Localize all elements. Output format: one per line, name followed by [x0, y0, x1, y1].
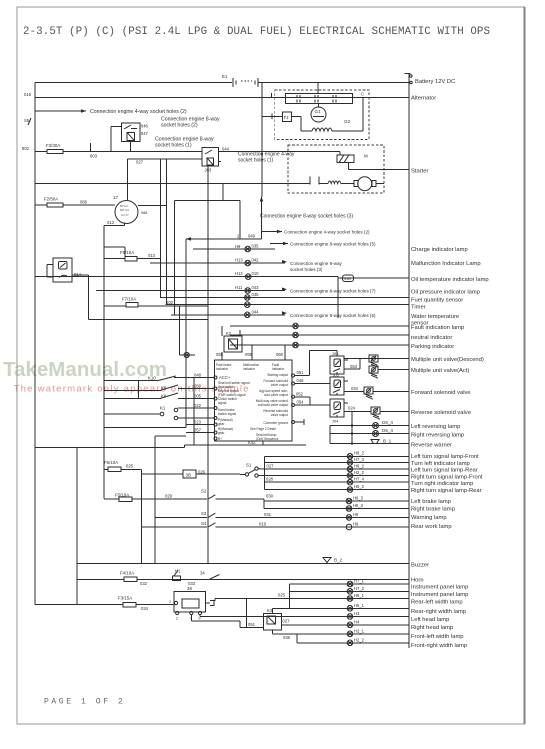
multiple unit valve descend [369, 355, 409, 367]
row H13 042 [150, 258, 287, 266]
svg-text:H2_1: H2_1 [354, 628, 365, 633]
svg-text:Turn left indicator lamp: Turn left indicator lamp [411, 461, 470, 467]
front-left width lamp H2_1 [289, 628, 409, 636]
svg-text:17: 17 [113, 195, 119, 200]
pin 1 [271, 93, 273, 98]
alternator wire [35, 97, 409, 99]
wire key bottom to bus [104, 220, 125, 225]
lamp H7_3 turn left indicator [264, 457, 408, 465]
lamp H8 warning [346, 512, 359, 520]
left bus 2 segment A [103, 225, 105, 498]
svg-text:Turn right indicator lamp: Turn right indicator lamp [411, 481, 473, 487]
reverse warner B_1 [330, 439, 409, 444]
svg-text:803: 803 [90, 154, 98, 159]
svg-text:Right brake lamp: Right brake lamp [411, 507, 455, 513]
svg-text:Front-left width lamp: Front-left width lamp [411, 634, 464, 640]
svg-text:J06: J06 [332, 351, 339, 356]
note 8-way (5) [270, 242, 376, 247]
svg-text:H7_4: H7_4 [354, 477, 365, 482]
fuse F8/10A [104, 250, 161, 261]
svg-text:H8_2: H8_2 [354, 451, 365, 456]
svg-text:9: 9 [199, 617, 201, 621]
svg-text:Connection engine 4-way socket: Connection engine 4-way socket holes (2) [90, 109, 187, 115]
svg-text:Rear-left width lamp: Rear-left width lamp [411, 600, 463, 606]
lamp H5_3 right brake [264, 503, 409, 511]
svg-text:Multiple unit valve(Act): Multiple unit valve(Act) [411, 368, 469, 374]
controller right pin texts [256, 373, 289, 425]
row H11 043 [96, 285, 287, 293]
controller bottom texts [250, 427, 279, 441]
svg-text:D6_4: D6_4 [382, 420, 393, 425]
svg-text:Rear-right width lamp: Rear-right width lamp [411, 609, 466, 615]
svg-text:BAT IG2: BAT IG2 [120, 209, 130, 212]
switch K9 [160, 385, 178, 391]
riser to socket note [175, 184, 264, 239]
svg-text:1: 1 [169, 600, 171, 604]
fuse F3/15A [35, 596, 174, 612]
svg-text:Left turn signal lamp-Rear: Left turn signal lamp-Rear [411, 468, 478, 474]
svg-text:052: 052 [296, 391, 304, 396]
wire F7 branch connector [180, 306, 195, 358]
svg-text:Right reversing lamp: Right reversing lamp [411, 433, 464, 439]
left feed verticals to switches [104, 381, 186, 428]
svg-text:Warning lamp: Warning lamp [411, 515, 447, 521]
svg-text:029: 029 [165, 494, 173, 499]
svg-text:B+: B+ [218, 437, 222, 441]
switch S2 brake [132, 489, 274, 509]
lamp H9 rear work [346, 522, 359, 530]
starter assembly dashed box [288, 145, 384, 193]
acc wire row [22, 146, 202, 159]
left head lamp H3 [239, 611, 409, 619]
svg-text:Controller ground: Controller ground [263, 421, 288, 425]
pin labels right [296, 370, 304, 405]
switch K10 [148, 376, 176, 381]
wire 024 reverse [344, 406, 371, 412]
svg-text:B_2: B_2 [334, 558, 343, 563]
row timer [166, 302, 409, 308]
rear-left width lamp H6_1 [290, 593, 409, 601]
svg-text:S1: S1 [246, 463, 252, 468]
svg-text:032: 032 [140, 581, 148, 586]
rear-right width lamp H5_1 [273, 603, 409, 611]
svg-text:H8: H8 [353, 512, 359, 517]
controller U1 box [215, 360, 293, 441]
svg-text:TakeManual.com: TakeManual.com [3, 358, 167, 381]
svg-text:neutral indicator: neutral indicator [411, 335, 452, 341]
svg-text:Instrument panel lamp: Instrument panel lamp [411, 585, 468, 591]
svg-text:S4: S4 [201, 521, 207, 526]
svg-text:046: 046 [141, 124, 149, 129]
svg-text:Right head lamp: Right head lamp [411, 625, 453, 631]
svg-text:H11: H11 [235, 285, 243, 290]
starter solenoid [218, 152, 368, 170]
controller header texts [216, 363, 285, 371]
reverse solenoid valve [371, 407, 409, 419]
svg-text:Fuel quantity sensor: Fuel quantity sensor [411, 298, 463, 304]
svg-text:Left turn signal lamp-Front: Left turn signal lamp-Front [411, 454, 479, 460]
front-right width lamp H2_2 [297, 637, 409, 645]
relay J03 [202, 147, 229, 173]
svg-text:F3/15A: F3/15A [118, 596, 132, 601]
switch K1 [160, 406, 178, 420]
svg-text:See Page 2 Detail: See Page 2 Detail [250, 427, 276, 431]
svg-text:H6_2: H6_2 [354, 463, 365, 468]
wire 059 060 [216, 345, 285, 360]
svg-text:2-3.5T (P) (C) (PSI 2.4L LPG &: 2-3.5T (P) (C) (PSI 2.4L LPG & DUAL FUEL… [23, 26, 490, 38]
svg-text:ACC+: ACC+ [219, 375, 231, 380]
controller ground terminator [295, 419, 304, 425]
alternator rectifier [286, 94, 353, 104]
svg-text:Left brake lamp: Left brake lamp [411, 499, 451, 505]
svg-text:Charge indicator lamp: Charge indicator lamp [411, 247, 468, 253]
box 3B [141, 436, 240, 564]
bottom feed verticals [191, 584, 347, 643]
svg-text:Front-right width lamp: Front-right width lamp [411, 643, 467, 649]
svg-text:Connection engine 4-way socket: Connection engine 4-way socket holes (2) [284, 230, 370, 235]
svg-text:Water temperature: Water temperature [411, 314, 459, 320]
svg-text:053: 053 [350, 364, 358, 369]
lamp H8_2 left turn front [264, 451, 408, 459]
right reversing lamp D5_4 [330, 428, 409, 437]
svg-text:S2: S2 [201, 489, 207, 494]
svg-text:gear: gear [218, 431, 225, 435]
803 junction tick [90, 143, 92, 152]
svg-text:G1: G1 [315, 109, 322, 114]
row 044 water [171, 309, 287, 317]
relay K2 [224, 331, 242, 352]
lamp H2_2 right turn front [264, 470, 408, 478]
svg-text:J04: J04 [332, 419, 339, 424]
lamp H7_4 turn right indicator [264, 477, 408, 485]
svg-text:Oil pressure indicator lamp: Oil pressure indicator lamp [411, 290, 480, 296]
fuse F5/10A [104, 493, 173, 502]
svg-text:060: 060 [276, 352, 284, 357]
horn row [77, 579, 409, 581]
reverse feed vertical [330, 412, 353, 445]
fuse F4/10A [120, 571, 148, 586]
svg-text:K1: K1 [160, 406, 166, 411]
svg-text:Reverse warner: Reverse warner [411, 443, 452, 449]
svg-text:802: 802 [22, 146, 30, 151]
battery top wire [35, 82, 409, 84]
svg-text:K10: K10 [148, 376, 156, 381]
svg-text:H9: H9 [235, 244, 241, 249]
svg-text:3B: 3B [186, 473, 191, 478]
switch K8 [160, 393, 178, 399]
note 4-way (2) mid [262, 230, 370, 235]
svg-text:030: 030 [266, 494, 274, 499]
svg-text:Oil temperature indicator lamp: Oil temperature indicator lamp [411, 277, 489, 283]
svg-text:031: 031 [264, 512, 272, 517]
svg-text:027: 027 [283, 619, 291, 624]
svg-text:Acc ST: Acc ST [121, 214, 129, 217]
svg-text:035: 035 [252, 244, 260, 249]
right head lamp H4 [281, 619, 409, 627]
svg-text:F2/50A: F2/50A [44, 197, 58, 202]
main feed wire row [35, 183, 310, 185]
fuse F3/30A [46, 143, 63, 154]
fuse F7/10A [104, 297, 208, 308]
svg-text:BR IG1: BR IG1 [120, 205, 129, 208]
svg-text:051: 051 [297, 370, 305, 375]
controller left pin texts [218, 375, 250, 441]
wires K2 to fault rows [222, 326, 240, 336]
svg-text:F1: F1 [284, 115, 290, 120]
instrument lamp H7_1 [290, 579, 409, 587]
svg-text:Starter: Starter [411, 169, 428, 175]
svg-text:013: 013 [107, 220, 115, 225]
svg-text:noid valve output: noid valve output [264, 393, 288, 397]
lamp H6_3 left brake [264, 496, 409, 504]
svg-text:Connection engine 8-way socket: Connection engine 8-way socket holes (5) [290, 242, 376, 247]
watermark TakeManual.com [3, 358, 248, 395]
wires controller to J relays [295, 351, 337, 406]
wire 053 [344, 359, 409, 370]
wire solenoid to bus (starter) [349, 169, 409, 171]
svg-text:H5_3: H5_3 [353, 503, 364, 508]
svg-text:Instrument panel lamp: Instrument panel lamp [411, 592, 468, 598]
starter motor [341, 177, 384, 191]
battery E1 [222, 74, 258, 87]
fuse F1 [283, 112, 292, 121]
svg-text:045: 045 [252, 292, 260, 297]
svg-text:gear: gear [218, 422, 225, 426]
svg-text:38: 38 [187, 586, 192, 591]
relay J05 [330, 374, 348, 396]
svg-text:H3: H3 [354, 611, 360, 616]
svg-text:Horn: Horn [411, 578, 424, 584]
fuse F2/50A [44, 197, 63, 208]
svg-text:048: 048 [194, 373, 202, 378]
svg-text:Parking indicator: Parking indicator [411, 344, 454, 350]
svg-text:34: 34 [200, 571, 205, 576]
controller right pins [292, 374, 295, 424]
svg-text:K42: K42 [248, 440, 256, 445]
svg-text:2: 2 [176, 617, 178, 621]
svg-text:H6_3: H6_3 [353, 496, 364, 501]
svg-text:M: M [364, 154, 368, 159]
svg-text:K2: K2 [226, 331, 232, 336]
svg-text:socket holes (1): socket holes (1) [238, 158, 274, 164]
svg-text:028: 028 [266, 477, 274, 482]
svg-text:044: 044 [222, 147, 230, 152]
svg-text:S1B: S1B [344, 277, 351, 281]
svg-text:H7_2: H7_2 [354, 586, 365, 591]
svg-text:034: 034 [351, 386, 359, 391]
svg-text:valve output: valve output [271, 383, 288, 387]
row H9 035 [193, 244, 275, 252]
svg-text:050: 050 [194, 384, 202, 389]
field coil [312, 128, 332, 131]
svg-text:027: 027 [136, 160, 144, 165]
turn lamp collector [263, 456, 265, 489]
svg-text:indicator: indicator [272, 367, 285, 371]
svg-text:Battery 12V DC: Battery 12V DC [415, 79, 455, 85]
svg-text:indicator: indicator [216, 367, 229, 371]
left bus 2 segment B [88, 275, 208, 320]
wire 034 forward [344, 386, 364, 392]
switch S3 warning [155, 511, 409, 517]
svg-text:H6_1: H6_1 [354, 593, 365, 598]
svg-text:023: 023 [194, 420, 202, 425]
svg-text:indicator: indicator [243, 367, 256, 371]
svg-text:058: 058 [216, 352, 224, 357]
generator G1 [311, 103, 326, 122]
svg-text:042: 042 [252, 258, 260, 263]
svg-text:013: 013 [148, 253, 156, 258]
relay 046/047 [111, 123, 148, 152]
relay J04 [330, 399, 348, 424]
svg-text:PAGE 1 OF 2: PAGE 1 OF 2 [44, 698, 125, 707]
svg-text:Alternator: Alternator [411, 96, 436, 102]
svg-text:H7_1: H7_1 [354, 579, 365, 584]
svg-text:H4: H4 [354, 619, 360, 624]
svg-text:Forward solenoid valve: Forward solenoid valve [411, 390, 471, 396]
svg-text:Starting output: Starting output [267, 373, 288, 377]
svg-text:solenoid valve output: solenoid valve output [258, 403, 288, 407]
svg-text:B_1: B_1 [383, 439, 392, 444]
svg-text:Connection engine 8-way socket: Connection engine 8-way socket holes (3) [260, 214, 353, 220]
svg-text:G2: G2 [344, 119, 351, 124]
buzzer row [77, 563, 409, 565]
lamp H5_2 right turn rear [264, 484, 408, 492]
svg-text:H2_2: H2_2 [354, 470, 365, 475]
svg-text:Right turn signal lamp-Front: Right turn signal lamp-Front [411, 475, 483, 481]
S1B sender [343, 275, 354, 282]
forward solenoid valve [364, 387, 409, 399]
light switch 38 [169, 586, 214, 621]
svg-text:valve output: valve output [271, 413, 288, 417]
svg-text:005: 005 [194, 394, 202, 399]
wire 028 turn right [258, 476, 273, 482]
relay J06 [330, 351, 348, 374]
svg-text:H9: H9 [353, 522, 359, 527]
svg-text:Multiple unit valve(Descend): Multiple unit valve(Descend) [411, 357, 484, 363]
key switch 17 [113, 195, 147, 224]
left reversing lamp D6_4 [330, 420, 409, 429]
svg-text:047: 047 [141, 131, 149, 136]
right bus [405, 74, 413, 649]
svg-text:036: 036 [283, 635, 291, 640]
svg-text:043: 043 [252, 285, 260, 290]
multiple unit valve act [369, 366, 409, 378]
key switch feed [35, 200, 115, 206]
lamp H6_2 left turn rear [264, 463, 408, 471]
instrument lamp H7_2 [290, 586, 409, 594]
svg-text:K3: K3 [267, 608, 273, 613]
svg-text:signal: signal [218, 401, 227, 405]
svg-text:049: 049 [248, 234, 256, 239]
svg-text:027: 027 [267, 463, 275, 468]
svg-text:Buzzer: Buzzer [411, 563, 429, 569]
svg-text:Reverse solenoid valve: Reverse solenoid valve [411, 410, 471, 416]
svg-text:(Opt) Sequence: (Opt) Sequence [256, 437, 279, 441]
svg-text:025: 025 [126, 464, 134, 469]
svg-text:switch signal: switch signal [218, 412, 236, 416]
svg-text:H5_1: H5_1 [354, 603, 365, 608]
svg-text:088: 088 [141, 211, 147, 215]
svg-text:Connection engine 8-way: Connection engine 8-way [290, 261, 343, 266]
row 045 fuel [160, 292, 409, 300]
svg-text:Malfunction Indicator Lamp: Malfunction Indicator Lamp [411, 261, 481, 267]
svg-text:F3/30A: F3/30A [46, 143, 60, 148]
svg-text:Connection engine 8-way socket: Connection engine 8-way socket holes (6) [290, 313, 376, 318]
mid verticals [186, 166, 208, 564]
row H12 010 [35, 271, 409, 280]
sender branch vertical [337, 277, 339, 318]
main lower bus [35, 446, 185, 448]
relay K3 [248, 593, 291, 641]
relay 014 [47, 247, 125, 282]
horn switch H1 [173, 569, 220, 586]
svg-text:034: 034 [141, 606, 149, 611]
switch S1 turn stalk [240, 463, 258, 478]
svg-text:H2_2: H2_2 [354, 637, 365, 642]
svg-text:H12: H12 [235, 271, 243, 276]
svg-text:F6/10A: F6/10A [104, 460, 118, 465]
svg-text:057: 057 [194, 428, 202, 433]
ground B_2 [323, 558, 343, 564]
svg-text:016: 016 [24, 92, 32, 97]
row parking [230, 342, 409, 348]
row fault lamp [230, 323, 409, 329]
svg-text:F8/10A: F8/10A [120, 250, 134, 255]
svg-text:044: 044 [252, 309, 260, 314]
svg-text:Fault indication lamp: Fault indication lamp [411, 325, 464, 331]
left bus 3 [76, 447, 78, 604]
wire 027 turn left [258, 463, 274, 469]
svg-text:socket holes (2): socket holes (2) [161, 123, 198, 129]
svg-text:H13: H13 [235, 258, 243, 263]
svg-text:019: 019 [259, 521, 267, 526]
starter contacts [310, 177, 328, 185]
connection 4-way note wire [35, 109, 187, 115]
key output verticals [138, 159, 175, 315]
svg-text:102: 102 [166, 300, 174, 305]
svg-text:022: 022 [194, 403, 202, 408]
svg-text:Connection engine 8-way socket: Connection engine 8-way socket holes (7) [290, 289, 376, 294]
svg-text:048: 048 [297, 378, 305, 383]
svg-text:086: 086 [80, 200, 88, 205]
wire coil to right [332, 98, 363, 132]
row neutral [230, 332, 409, 338]
svg-text:F7/10A: F7/10A [122, 297, 136, 302]
svg-text:C: C [361, 92, 364, 97]
svg-text:E1: E1 [222, 74, 228, 79]
svg-text:H7_3: H7_3 [354, 457, 365, 462]
svg-text:025: 025 [278, 593, 286, 598]
wire rectifier to battery line [317, 83, 319, 94]
wires into controller left [174, 373, 214, 433]
wire K42 ground [185, 440, 306, 447]
svg-text:024: 024 [348, 406, 356, 411]
controller left pins [214, 376, 217, 440]
svg-text:S3: S3 [201, 511, 207, 516]
wire F1 to field coil [291, 116, 312, 131]
switch S4 rear work [141, 521, 409, 527]
svg-text:D5_4: D5_4 [382, 428, 393, 433]
alternator assembly dashed box [275, 90, 369, 139]
svg-text:Left reversing lamp: Left reversing lamp [411, 424, 460, 430]
svg-text:051: 051 [248, 622, 256, 627]
svg-text:Rear work lamp: Rear work lamp [411, 524, 452, 530]
svg-text:H5_2: H5_2 [354, 484, 365, 489]
svg-text:010: 010 [252, 271, 260, 276]
left bus 1 [34, 83, 36, 605]
starter series coil [328, 181, 341, 184]
row 049 [186, 234, 262, 241]
